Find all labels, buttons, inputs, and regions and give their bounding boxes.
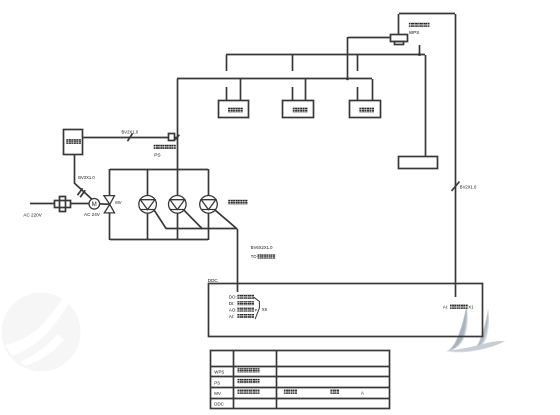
- svg-text:AC 220V: AC 220V: [23, 212, 42, 217]
- svg-text:BV2X1.0: BV2X1.0: [460, 185, 477, 190]
- svg-text:PS: PS: [154, 153, 160, 159]
- svg-text:A: A: [361, 391, 364, 396]
- svg-text:AI:: AI:: [229, 314, 234, 319]
- svg-text:P: P: [255, 307, 258, 312]
- svg-text:X8: X8: [262, 307, 268, 312]
- svg-text:AI:: AI:: [443, 304, 448, 309]
- svg-text:DI:: DI:: [229, 301, 235, 306]
- svg-text:DDC: DDC: [214, 402, 224, 407]
- svg-text:X1: X1: [468, 304, 474, 309]
- svg-text:M: M: [92, 202, 97, 208]
- svg-text:WPS: WPS: [214, 370, 224, 375]
- svg-text:DDC: DDC: [208, 278, 219, 283]
- svg-text:AC 24V: AC 24V: [84, 212, 101, 217]
- svg-text:TO: TO: [251, 254, 257, 259]
- svg-text:BV6X2X1.0: BV6X2X1.0: [251, 245, 273, 250]
- svg-text:WPS: WPS: [409, 30, 419, 35]
- svg-text:DO:: DO:: [229, 295, 237, 300]
- svg-text:BV3X1.0: BV3X1.0: [78, 175, 95, 180]
- svg-text:MV: MV: [115, 200, 121, 205]
- svg-text:BV2X1.0: BV2X1.0: [122, 130, 139, 135]
- svg-text:MV: MV: [214, 391, 221, 396]
- svg-text:AO:: AO:: [229, 307, 237, 312]
- svg-text:PS: PS: [214, 380, 220, 385]
